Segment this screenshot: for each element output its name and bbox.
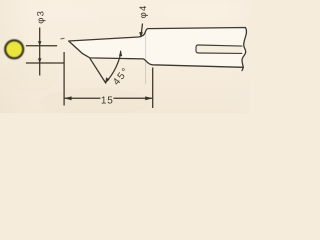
slot in body: [196, 45, 243, 53]
15 dim right extension line: [152, 68, 154, 109]
svg-text:φ4: φ4: [138, 4, 149, 18]
break line tail below body: [242, 67, 244, 71]
paper background: [0, 0, 250, 113]
45deg arc arrowhead lower: [105, 77, 110, 83]
spur overshoot left of tip point: [61, 37, 65, 40]
tip body outline: [69, 28, 247, 68]
phi3 upper tick: [26, 45, 57, 47]
phi3 upper arrowhead: [38, 41, 42, 46]
svg-text:φ3: φ3: [35, 10, 46, 24]
scan mottle: [0, 2, 250, 116]
45deg extension line: [90, 58, 106, 83]
svg-text:15: 15: [101, 96, 114, 107]
15 dim right arrowhead: [145, 96, 153, 100]
phi3 dimension line: [39, 28, 41, 76]
15 dim line right segment: [113, 97, 152, 99]
15 dim line left segment: [64, 97, 100, 99]
15 dim left arrowhead: [64, 96, 72, 100]
45deg arc arrowhead upper: [119, 50, 122, 56]
yellow color-code dot: [5, 40, 23, 58]
phi3 lower arrowhead: [38, 58, 42, 63]
15 dim left extension line: [63, 52, 65, 106]
faint vertical crease artifact: [145, 33, 147, 84]
45deg arc: [106, 51, 121, 82]
phi4 leader line: [141, 24, 143, 37]
phi4 arrowhead: [139, 32, 143, 37]
phi3 lower tick: [26, 62, 64, 64]
